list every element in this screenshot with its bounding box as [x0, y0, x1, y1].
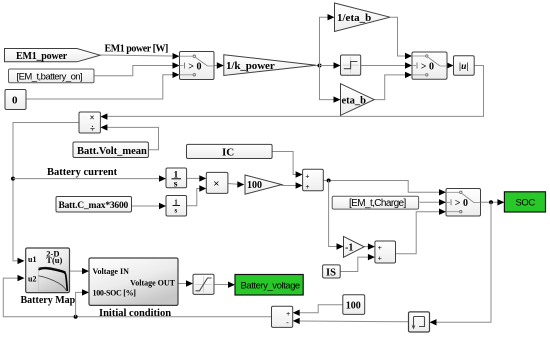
svg-text:Batt.Volt_mean: Batt.Volt_mean [77, 146, 147, 157]
saturation block [193, 274, 214, 294]
svg-text:×: × [90, 113, 95, 123]
outport SOC [504, 192, 545, 212]
constant 0 [5, 90, 26, 110]
wire EM1_power to switch1 [100, 53, 180, 59]
integrator 1/s small [166, 196, 187, 217]
wire junction down to gain -1 [329, 181, 344, 250]
svg-text:EM1 power [W]: EM1 power [W] [105, 44, 169, 55]
wire junction after 1/k_power [316, 64, 322, 68]
svg-text:u1: u1 [28, 255, 36, 264]
label EM1 power [W] [105, 44, 169, 55]
wire abs to divide x input (long feedback) [100, 66, 483, 120]
svg-text:100: 100 [346, 300, 361, 311]
wire Battery Map to Voltage IN [70, 268, 90, 274]
abs block |u| [454, 56, 475, 75]
gain 1/eta_b [335, 3, 391, 32]
svg-text:Battery_voltage: Battery_voltage [241, 280, 300, 291]
constant Batt.C_max*3600 [56, 197, 132, 213]
label Initial condition [99, 308, 171, 319]
gain 1/k_power [224, 55, 316, 76]
wire junction to sign block [320, 62, 341, 68]
svg-text:SOC: SOC [516, 197, 536, 208]
wire Initial condition to saturation [178, 280, 193, 286]
svg-text:0: 0 [12, 94, 18, 106]
svg-text:IS: IS [326, 267, 336, 278]
svg-text:IC: IC [222, 147, 234, 159]
from tag [EM_t,Charge] [332, 196, 418, 209]
svg-text:100: 100 [247, 180, 262, 191]
integrator 1/s [166, 168, 187, 190]
svg-text:+: + [378, 253, 382, 262]
switch SW2 [412, 52, 447, 79]
wire integrator2 to product [187, 185, 207, 206]
outport Battery_voltage [235, 275, 303, 296]
label Battery current [47, 167, 118, 178]
wire gain -1 to sum2 [364, 243, 375, 249]
svg-text:|u|: |u| [459, 62, 468, 72]
svg-text:1/k_power: 1/k_power [226, 60, 275, 72]
wire battery_on to switch1 [94, 62, 180, 75]
switch SW3 [446, 189, 481, 217]
wire Batt.Volt_mean to divide divisor input [100, 124, 158, 150]
sum1 [303, 169, 324, 191]
wire integrator1 to product [187, 175, 207, 181]
svg-text:> 0: > 0 [455, 198, 468, 209]
wire product to gain 100 [228, 181, 244, 187]
svg-text:-1: -1 [345, 243, 353, 254]
product block [206, 172, 228, 193]
svg-text:+: + [378, 243, 382, 252]
wire switch2 to abs [447, 62, 454, 68]
svg-text:+: + [305, 171, 309, 180]
wire constant 100 to sum3 plus input [293, 305, 343, 316]
svg-text:100-SOC [%]: 100-SOC [%] [93, 288, 137, 297]
svg-text:s: s [174, 180, 178, 190]
wire sum1 to switch3 with junction [323, 179, 446, 196]
svg-text:EM1_power: EM1_power [16, 51, 68, 62]
svg-text:[EM_t,battery_on]: [EM_t,battery_on] [17, 71, 83, 82]
svg-text:> 0: > 0 [421, 61, 434, 72]
wire IS to sum2 [340, 254, 375, 272]
sum3 (flipped) [272, 306, 293, 327]
wire Batt.C_max to integrator2 [132, 203, 167, 209]
svg-text:×: × [213, 178, 219, 190]
wire sum2 up to switch3 third input [396, 209, 447, 254]
divide block (flipped) [79, 112, 100, 133]
wire zero to switch1 [26, 72, 180, 99]
wire Battery current to integrator1 [13, 175, 166, 181]
gain -1 [344, 236, 365, 257]
subsystem Initial condition [89, 258, 178, 305]
svg-text:T(u): T(u) [46, 255, 62, 265]
sum2 [375, 241, 396, 263]
wire memory to sum3 minus input [293, 318, 409, 324]
wire gain 100 to sum1 [281, 182, 302, 188]
inport EM1_power [5, 49, 101, 62]
constant IS [323, 265, 341, 279]
svg-text:Initial condition: Initial condition [99, 308, 171, 319]
svg-text:Batt.C_max*3600: Batt.C_max*3600 [59, 201, 129, 211]
svg-text:Battery Map: Battery Map [21, 295, 76, 306]
constant IC [187, 144, 273, 158]
wire junction to gain eta_b [320, 66, 341, 103]
wire divide output down left side with junction [11, 123, 79, 265]
svg-text:Battery current: Battery current [47, 167, 118, 178]
wire junction down to memory block [430, 202, 492, 325]
svg-text:u2: u2 [28, 275, 36, 284]
wire junction up to 100-SOC input [76, 289, 89, 317]
svg-text:> 0: > 0 [188, 61, 201, 72]
switch SW1 [180, 52, 215, 80]
sign block [341, 55, 361, 75]
wire 1/eta_b to switch2 [390, 17, 412, 59]
wire IC to sum1 [272, 152, 303, 178]
svg-text:÷: ÷ [90, 123, 95, 133]
wire junction to gain 1/eta_b [320, 14, 335, 66]
gain 100 [245, 175, 282, 194]
wire EM_t,Charge to switch3 [420, 199, 447, 205]
svg-text:eta_b: eta_b [342, 95, 367, 106]
memory block [409, 312, 430, 332]
svg-text:Voltage IN: Voltage IN [93, 267, 130, 276]
label Battery Map [21, 295, 76, 306]
svg-text:s: s [175, 207, 178, 215]
svg-text:+: + [305, 182, 309, 191]
wire sum3 output feedback to u2 and 100-SOC [3, 275, 271, 319]
constant Batt.Volt_mean [73, 142, 148, 158]
lookup table Battery Map [26, 248, 70, 293]
gain eta_b [341, 84, 375, 116]
wire switch1 to gain 1/k_power [214, 62, 224, 68]
constant 100 bottom [343, 295, 365, 315]
svg-text:Voltage OUT: Voltage OUT [130, 278, 175, 287]
wire saturation to Battery_voltage [214, 282, 235, 288]
wire eta_b to switch2 [374, 72, 412, 100]
wire switch3 to SOC with junction [481, 199, 505, 205]
svg-text:[EM_t,Charge]: [EM_t,Charge] [349, 198, 406, 209]
from tag [EM_t,battery_on] [9, 69, 95, 83]
wire sign to switch2 [361, 62, 412, 68]
svg-text:1/eta_b: 1/eta_b [337, 12, 371, 24]
